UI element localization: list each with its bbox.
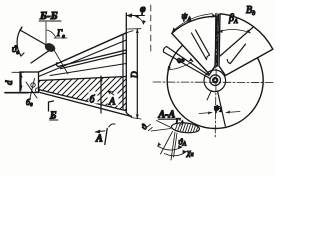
d dimension [4,72,28,92]
section line A-A trace [100,76,102,113]
letter b in hatch [89,92,98,104]
left blade rotated section [172,16,217,74]
hub lower-left radial [207,91,212,101]
small tooth at cone start [31,83,35,87]
svg-text:φ: φ [140,4,146,15]
flute helix line [56,50,126,69]
outer bottom edge [40,93,132,117]
phi angle annotation [126,4,146,33]
svg-text:D: D [130,71,140,79]
hatch bottom boundary [39,90,127,111]
D dimension [128,29,142,119]
beta_A arc [219,29,251,33]
section trace B [49,101,54,111]
centerlines [153,81,273,84]
shank rectangle [20,72,39,93]
section label B-B [39,10,61,22]
section label A-A [158,110,177,121]
narrow wedge slot [163,47,210,79]
svg-text:А: А [108,97,116,108]
right end face [125,13,127,113]
A-A tooth section [171,122,200,139]
psi_A arc [172,14,216,32]
svg-text:А: А [95,134,103,145]
letter A in hatch [108,94,119,106]
psi bottom arrows [199,111,240,115]
cone top edge [39,33,127,72]
svg-text:Б-Б: Б-Б [39,10,58,22]
axis / hatch top [39,77,127,81]
blade vertical edge [217,15,218,67]
cone second line [39,40,127,77]
svg-text:d: d [4,80,14,85]
hub [204,70,226,92]
right blade rotated section [219,14,273,76]
wedge angle arc [168,61,194,70]
hatch fill of section [26,65,207,182]
B-B detail wedge [17,22,68,74]
dashed extension [150,5,152,51]
view A arrow label [95,124,115,145]
main circle [167,33,263,129]
section angle lines [147,121,187,161]
tooth back line [50,64,126,76]
lower radial line [218,91,226,126]
